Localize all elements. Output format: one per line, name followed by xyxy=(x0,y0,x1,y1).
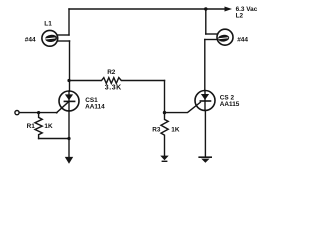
wire: left rail down to CS1 xyxy=(69,41,71,91)
lamp L2 filament xyxy=(218,34,230,42)
ground (R3) xyxy=(160,156,168,162)
node: junction left rail / R2 xyxy=(67,79,70,82)
wire: CS2 down to ground xyxy=(204,111,206,157)
wire: diagonal into CS1 xyxy=(57,102,69,113)
lamp L1 envelope xyxy=(42,30,58,46)
wire: input to CS1 xyxy=(19,112,57,114)
lamp L2 envelope xyxy=(217,29,233,45)
ground (CS1) xyxy=(65,157,73,164)
svg-text:R1: R1 xyxy=(27,123,36,130)
svg-text:R2: R2 xyxy=(107,69,116,76)
arrowhead 6.3 Vac xyxy=(225,7,233,12)
wire: L1 lower lead xyxy=(57,40,69,42)
wire: CS1 cathode down to ground xyxy=(68,111,70,157)
node: junction input wire / R1 xyxy=(37,111,40,114)
node: junction R2 / R3 / CS2 wire xyxy=(163,111,166,114)
wire: lead through CS2 xyxy=(204,91,206,111)
svg-text:#44: #44 xyxy=(237,36,248,43)
wire: L2 upper lead xyxy=(206,33,218,35)
wire: R2 right corner down xyxy=(164,81,166,113)
wire: L1 upper lead xyxy=(57,34,69,36)
resistor R3 1K xyxy=(161,113,168,156)
wire: top supply rail xyxy=(69,8,225,10)
wire: right rail from top to L2 xyxy=(205,9,207,34)
wire: to CS2 cathode xyxy=(165,102,201,112)
svg-text:AA114: AA114 xyxy=(85,104,105,111)
node: junction R1 bottom / rail xyxy=(67,137,70,140)
terminal: input xyxy=(15,111,19,115)
wire: lead through CS1 xyxy=(68,91,70,111)
diode CS1 (AA114) envelope xyxy=(59,91,79,111)
svg-text:AA115: AA115 xyxy=(220,101,240,108)
resistor R1 1K xyxy=(35,113,42,139)
diode CS2 (AA115) envelope xyxy=(195,91,215,111)
svg-text:R3: R3 xyxy=(152,126,161,133)
lamp L1 filament xyxy=(45,34,57,42)
node: junction top rail / L2 branch xyxy=(204,7,207,10)
diode CS2 element xyxy=(201,94,209,100)
ground (CS2) xyxy=(198,156,212,162)
wire: L2 lower lead xyxy=(205,39,218,41)
wire: R1 bottom to CS1 cathode rail xyxy=(39,138,69,140)
svg-text:1K: 1K xyxy=(44,123,53,130)
svg-text:#44: #44 xyxy=(25,36,36,43)
resistor R2 3.3K xyxy=(69,78,165,84)
diode CS1 element xyxy=(65,94,73,100)
svg-text:L2: L2 xyxy=(236,12,244,19)
svg-text:1K: 1K xyxy=(171,126,180,133)
svg-text:3.3K: 3.3K xyxy=(105,84,122,91)
svg-text:L1: L1 xyxy=(44,21,52,28)
wire: right rail down to CS2 xyxy=(204,40,206,91)
wire: left vertical from top rail to L1 upper lead xyxy=(68,9,70,35)
